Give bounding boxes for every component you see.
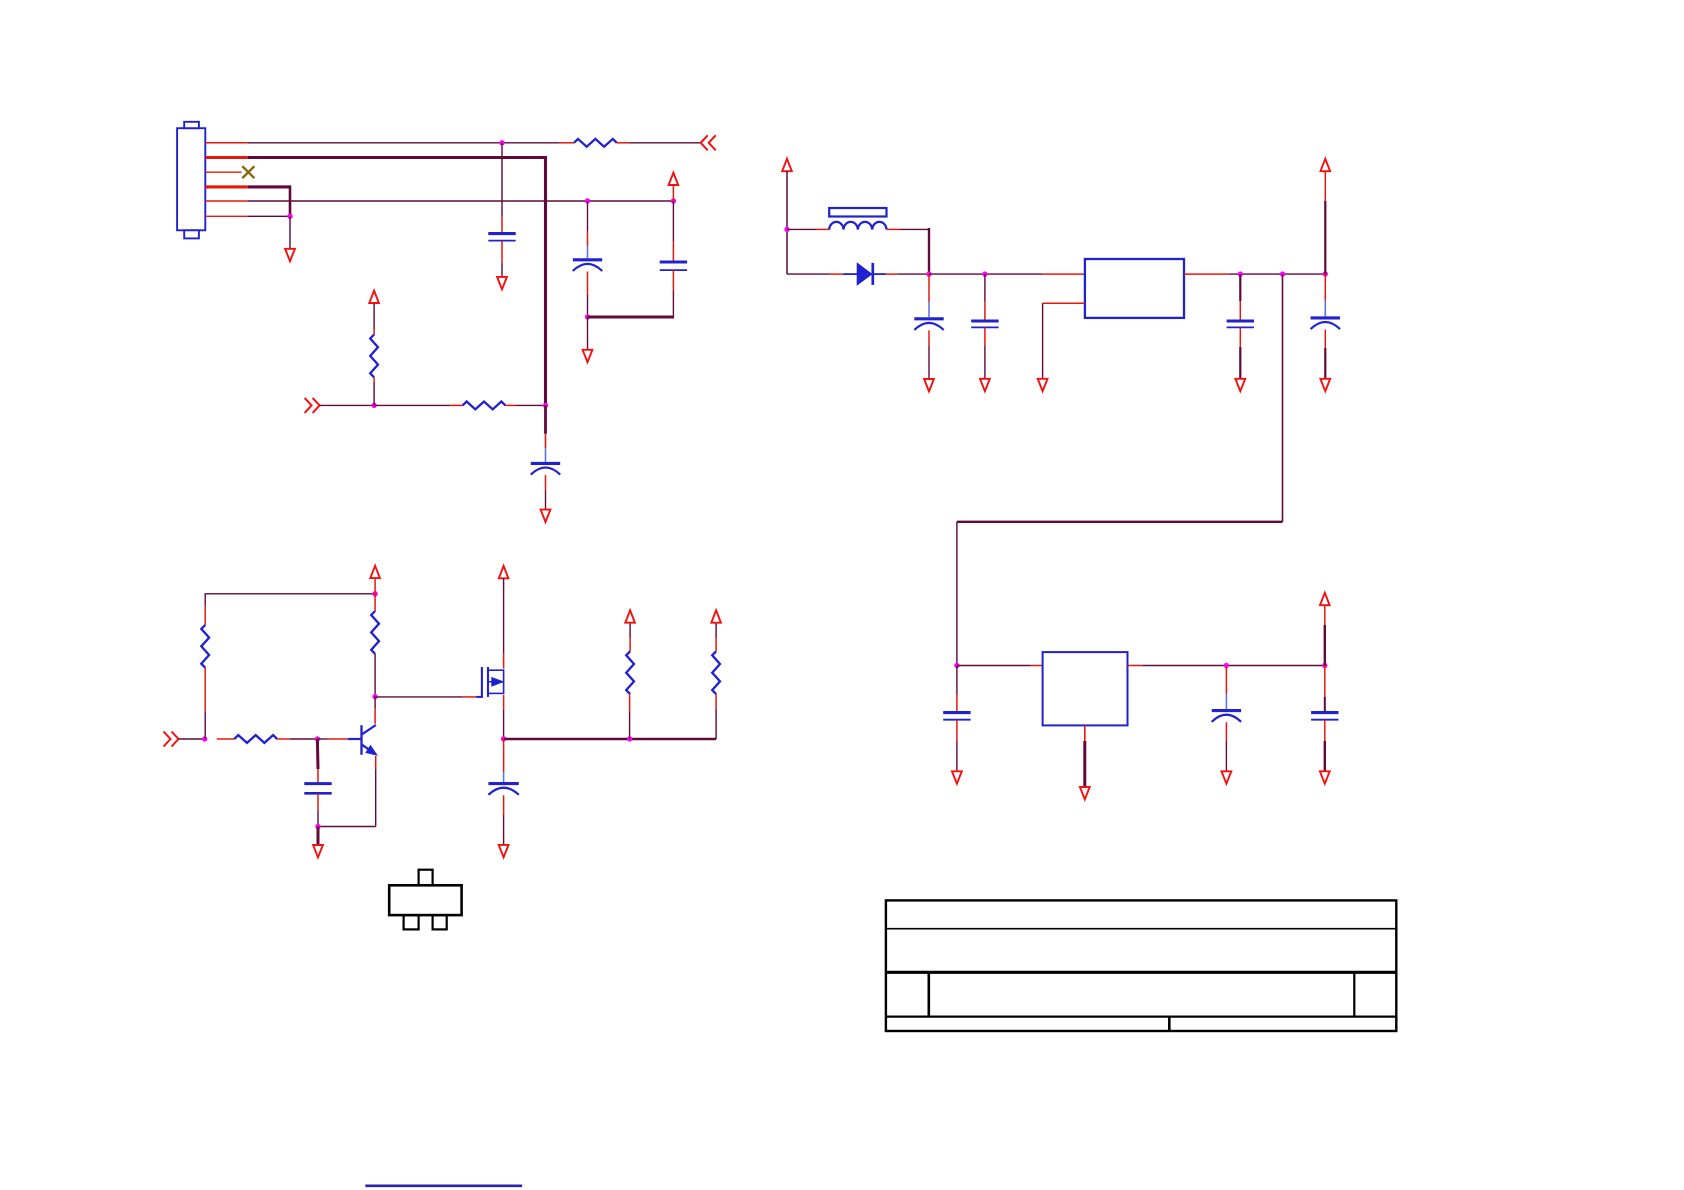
node N5a <box>585 198 590 203</box>
wire to U2 <box>957 665 1043 667</box>
resistor R7 <box>626 624 634 740</box>
wire U1 ground pin <box>1043 303 1085 379</box>
node N23 <box>501 736 506 741</box>
power VCC9 <box>711 610 721 622</box>
resistor R1 <box>560 139 630 147</box>
wire U2 ground pin <box>1084 725 1086 787</box>
ground GND13 <box>1320 771 1330 783</box>
off-page connector IN1 <box>701 135 716 150</box>
power VCC6 <box>370 566 380 578</box>
wire to ground <box>587 317 589 350</box>
ground GND14 <box>313 845 323 857</box>
node N22 <box>315 824 320 829</box>
ground GND10 <box>952 771 962 783</box>
ground GND4 <box>541 510 551 522</box>
node N13 <box>1280 271 1285 276</box>
resistor R5 <box>371 594 379 697</box>
resistor R3 <box>374 402 545 410</box>
power VCC1 <box>669 173 679 185</box>
wire vcc <box>374 578 376 594</box>
ferrite bead core <box>829 208 886 217</box>
wire R4 top <box>205 594 376 606</box>
ground GND11 <box>1080 787 1090 799</box>
ground GND5 <box>924 379 934 391</box>
off-page connector IN3 <box>164 732 179 747</box>
off-page connector IN2 <box>305 398 320 413</box>
capacitor C4 <box>531 405 560 509</box>
inductor L1 <box>787 222 929 274</box>
wire U1 output <box>1184 273 1325 275</box>
capacitor C13 <box>488 739 518 845</box>
node N24 <box>627 736 632 741</box>
node N18 <box>202 736 207 741</box>
capacitor C7 <box>1227 274 1254 379</box>
SOT-23 package outline <box>389 870 461 930</box>
mosfet M1 <box>476 667 504 698</box>
underline mark <box>365 1185 522 1188</box>
wire to regulator <box>929 273 1085 275</box>
node N8 <box>543 403 548 408</box>
node N12 <box>1238 271 1243 276</box>
wire drain <box>503 578 505 668</box>
node N10 <box>926 271 931 276</box>
capacitor C6 <box>971 274 998 379</box>
wire thick link <box>588 316 674 319</box>
node N15 <box>954 663 959 668</box>
ground GND6 <box>980 379 990 391</box>
wire input net <box>320 404 375 406</box>
ground GND3 <box>583 350 593 362</box>
capacitor C8 <box>1311 171 1340 379</box>
wire source <box>503 695 505 739</box>
ground GND7 <box>1038 379 1048 391</box>
capacitor C1 <box>488 143 515 277</box>
wire input2 <box>179 738 205 740</box>
wire pin1 net <box>205 142 559 144</box>
power VCC5 <box>1320 593 1330 605</box>
resistor R2 <box>370 303 378 405</box>
regulator U1 <box>1085 259 1184 318</box>
node N21 <box>315 736 320 741</box>
wire U2 output <box>1128 665 1325 667</box>
node N14 <box>1323 271 1328 276</box>
power VCC8 <box>625 610 635 622</box>
node pin1-junction <box>499 140 504 145</box>
resistor R8 <box>712 624 720 710</box>
ground GND2 <box>497 277 507 289</box>
node N9 <box>784 227 789 232</box>
wire emitter <box>318 756 376 827</box>
capacitor C5 <box>914 274 943 379</box>
capacitor C3 <box>660 185 687 319</box>
wire gate <box>375 696 476 698</box>
ground GND15 <box>499 845 509 857</box>
node N5b <box>671 198 676 203</box>
node N19 <box>372 591 377 596</box>
capacitor C12 <box>304 739 331 827</box>
ground GND1 <box>285 249 295 261</box>
wire vcc drop <box>786 171 788 274</box>
diode D1 <box>787 263 929 285</box>
wire collector <box>374 697 376 724</box>
capacitor C11 <box>1311 605 1338 771</box>
node N11 <box>982 271 987 276</box>
wire to ground <box>317 827 320 846</box>
ground GND8 <box>1235 379 1245 391</box>
capacitor C9 <box>943 666 970 772</box>
wire pin4 thick <box>205 185 290 216</box>
node N7 <box>371 403 376 408</box>
wire pin2 thick net <box>205 156 545 405</box>
ground GND12 <box>1222 771 1232 783</box>
no-connect pin3 <box>205 166 254 178</box>
power VCC4 <box>1321 159 1331 171</box>
wire link to second regulator <box>957 274 1283 665</box>
regulator U2 <box>1043 652 1128 725</box>
node pin4-pin6 junction <box>287 214 292 219</box>
wire source rail <box>504 709 716 739</box>
wire to off-page <box>629 142 701 144</box>
title block table <box>886 900 1396 1031</box>
node N17 <box>1322 663 1327 668</box>
power VCC3 <box>782 159 792 171</box>
node N20 <box>372 694 377 699</box>
wire base stub <box>317 738 348 740</box>
node N16 <box>1224 663 1229 668</box>
power VCC2 <box>369 291 379 303</box>
resistor R6 <box>217 735 318 743</box>
transistor Q1 <box>348 725 376 755</box>
connector J1 <box>177 122 205 239</box>
capacitor C10 <box>1212 666 1241 772</box>
capacitor C2 <box>573 201 602 317</box>
wire pin5 net <box>205 200 673 202</box>
power VCC7 <box>499 566 509 578</box>
node N6 <box>585 314 590 319</box>
ground GND9 <box>1320 379 1330 391</box>
wire to ground <box>289 216 291 249</box>
resistor R4 <box>201 605 209 739</box>
wire pin6 <box>205 215 290 217</box>
